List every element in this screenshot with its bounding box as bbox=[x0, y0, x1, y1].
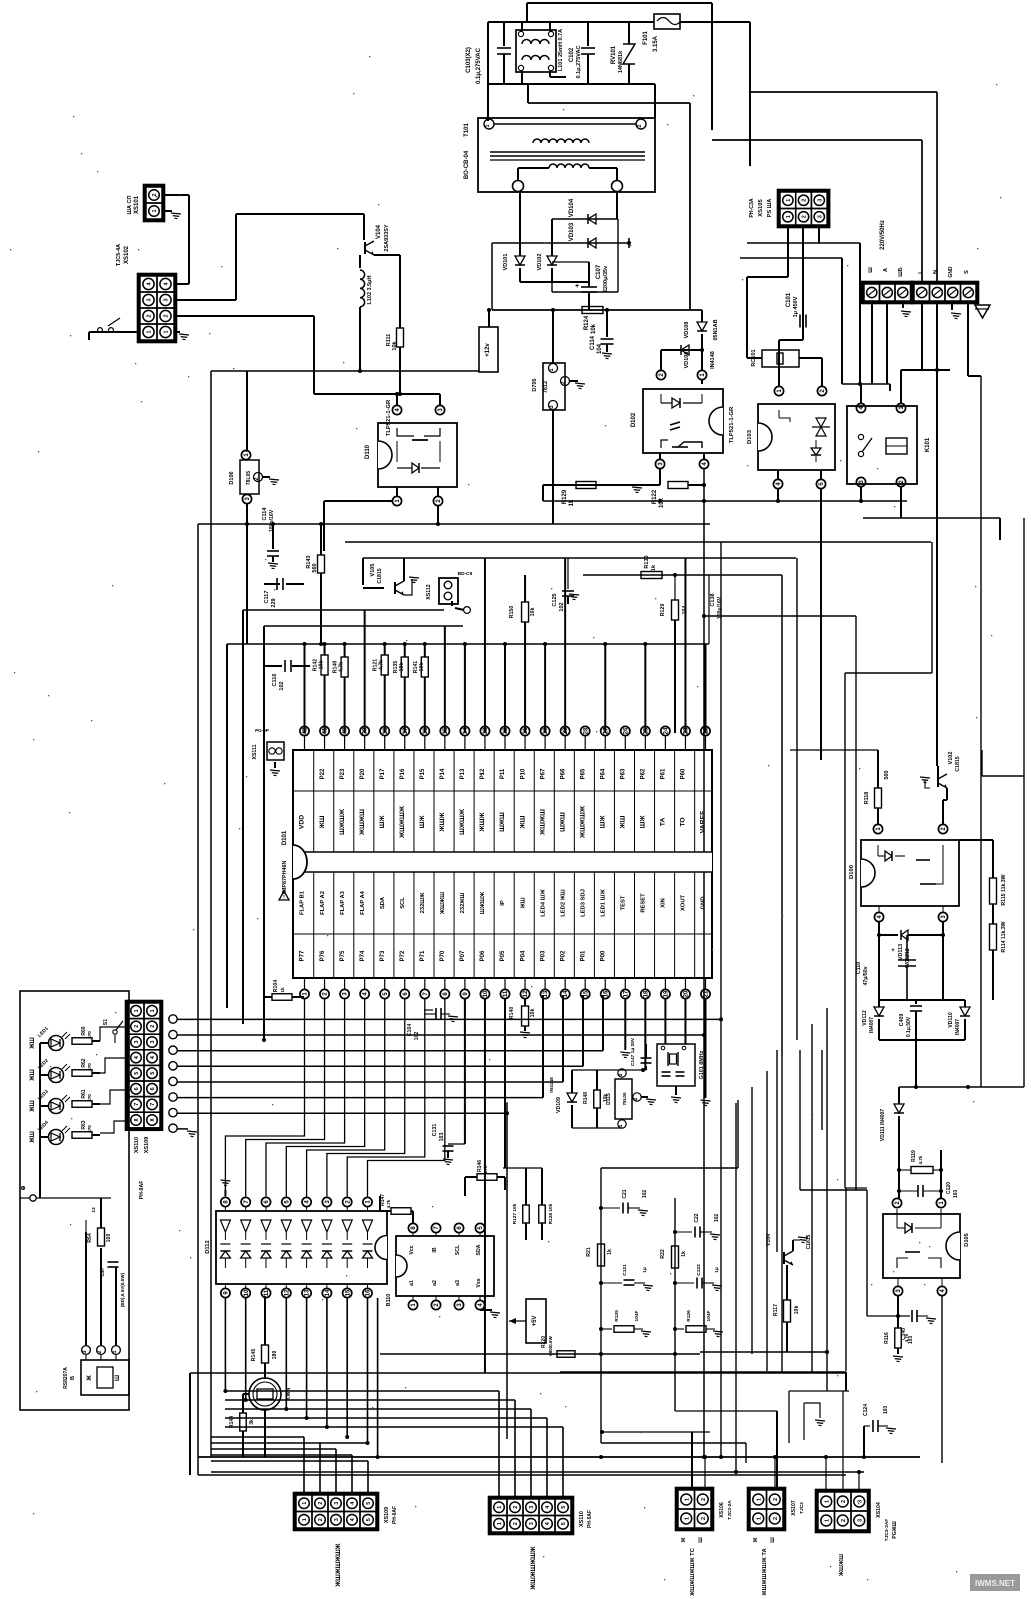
svg-text:13: 13 bbox=[91, 1207, 97, 1213]
svg-text:ШЖШЖ: ШЖШЖ bbox=[480, 891, 486, 914]
svg-text:R145: R145 bbox=[251, 1349, 257, 1362]
svg-text:ЖШЖШЖШЖ: ЖШЖШЖШЖ bbox=[335, 1543, 342, 1587]
svg-text:36: 36 bbox=[423, 727, 429, 734]
svg-text:R125: R125 bbox=[614, 1310, 620, 1322]
svg-text:C1815: C1815 bbox=[377, 568, 383, 583]
svg-text:P07: P07 bbox=[460, 950, 466, 961]
svg-text:2: 2 bbox=[633, 1097, 639, 1100]
svg-text:ШЖ: ШЖ bbox=[640, 815, 647, 829]
svg-text:13: 13 bbox=[305, 1289, 311, 1296]
svg-text:2: 2 bbox=[318, 1518, 324, 1521]
svg-text:VAREF: VAREF bbox=[700, 811, 707, 834]
svg-text:1: 1 bbox=[756, 1498, 762, 1501]
svg-text:2: 2 bbox=[701, 1517, 707, 1520]
svg-text:D115: D115 bbox=[606, 1093, 612, 1105]
svg-text:3: 3 bbox=[857, 1519, 863, 1522]
svg-text:1: 1 bbox=[497, 1522, 503, 1525]
svg-text:LED4 ШЖ: LED4 ШЖ bbox=[540, 888, 546, 916]
svg-text:P03: P03 bbox=[540, 950, 546, 961]
svg-text:+12v: +12v bbox=[485, 343, 491, 357]
svg-text:28: 28 bbox=[583, 727, 589, 734]
svg-text:2: 2 bbox=[701, 1498, 707, 1501]
svg-text:XS112: XS112 bbox=[426, 584, 432, 599]
svg-text:13: 13 bbox=[543, 990, 549, 997]
svg-text:1: 1 bbox=[302, 1518, 308, 1521]
svg-text:PH-C3A: PH-C3A bbox=[749, 198, 755, 218]
svg-text:2: 2 bbox=[318, 1502, 324, 1505]
svg-text:ЖШ: ЖШ bbox=[30, 1100, 36, 1112]
svg-text:1k: 1k bbox=[280, 987, 286, 993]
svg-text:P23: P23 bbox=[340, 768, 346, 779]
svg-text:P11: P11 bbox=[500, 768, 506, 779]
svg-text:P14: P14 bbox=[440, 768, 446, 779]
svg-text:C104: C104 bbox=[407, 1024, 413, 1037]
svg-text:FLAP A3: FLAP A3 bbox=[340, 890, 346, 915]
svg-text:ЖШЖШ: ЖШЖШ bbox=[440, 892, 446, 915]
svg-text:560: 560 bbox=[312, 563, 318, 572]
svg-text:D106: D106 bbox=[229, 471, 235, 484]
svg-text:SDA: SDA bbox=[476, 1244, 482, 1255]
svg-text:1: 1 bbox=[485, 124, 491, 127]
svg-text:3: 3 bbox=[147, 298, 153, 301]
svg-text:XS109: XS109 bbox=[384, 1507, 390, 1523]
svg-text:5: 5 bbox=[366, 1518, 372, 1521]
svg-text:XS106: XS106 bbox=[719, 1502, 725, 1518]
svg-text:0.1μ,275VAC: 0.1μ,275VAC bbox=[476, 47, 482, 84]
svg-text:Ж: Ж bbox=[753, 1537, 759, 1543]
svg-text:470: 470 bbox=[87, 1094, 92, 1102]
svg-text:P10: P10 bbox=[520, 768, 526, 779]
svg-text:XS110: XS110 bbox=[579, 1511, 585, 1527]
svg-text:XS111: XS111 bbox=[252, 744, 258, 759]
svg-text:P66: P66 bbox=[560, 768, 566, 779]
svg-text:2: 2 bbox=[841, 1519, 847, 1522]
svg-text:S: S bbox=[964, 270, 970, 274]
svg-text:1: 1 bbox=[164, 330, 170, 333]
svg-text:Vcc: Vcc bbox=[409, 1245, 415, 1254]
svg-text:+5V: +5V bbox=[532, 1316, 538, 1327]
svg-text:XS110: XS110 bbox=[134, 1137, 140, 1153]
svg-text:ШЖШЖ: ШЖШЖ bbox=[459, 808, 466, 835]
svg-text:P67: P67 bbox=[540, 768, 546, 779]
svg-text:2: 2 bbox=[802, 199, 808, 202]
svg-text:23: 23 bbox=[684, 727, 690, 734]
svg-text:BD-C9: BD-C9 bbox=[458, 571, 473, 577]
svg-text:IB: IB bbox=[432, 1247, 438, 1252]
svg-text:47μ/50v: 47μ/50v bbox=[863, 966, 869, 985]
svg-text:24: 24 bbox=[664, 727, 670, 734]
svg-text:P13: P13 bbox=[460, 768, 466, 779]
svg-text:P72: P72 bbox=[400, 950, 406, 961]
svg-text:104: 104 bbox=[597, 343, 603, 354]
svg-text:34: 34 bbox=[463, 727, 469, 734]
svg-text:3: 3 bbox=[529, 1506, 535, 1509]
svg-text:PGЖШ: PGЖШ bbox=[892, 1521, 898, 1538]
svg-text:a1: a1 bbox=[409, 1280, 415, 1286]
svg-text:P12: P12 bbox=[480, 768, 486, 779]
svg-text:P15: P15 bbox=[420, 768, 426, 779]
svg-text:PS ША: PS ША bbox=[767, 199, 773, 217]
svg-text:2: 2 bbox=[513, 1506, 519, 1509]
svg-text:ЖШЖШЖШЖ: ЖШЖШЖШЖ bbox=[530, 1546, 537, 1590]
svg-text:Ш: Ш bbox=[698, 1537, 704, 1543]
svg-text:31: 31 bbox=[523, 727, 529, 734]
svg-text:2: 2 bbox=[254, 477, 260, 480]
svg-text:VD111 IN4007: VD111 IN4007 bbox=[880, 1109, 886, 1141]
svg-text:2: 2 bbox=[773, 1517, 779, 1520]
svg-text:1μ 450V: 1μ 450V bbox=[793, 296, 799, 317]
svg-text:3: 3 bbox=[549, 405, 555, 408]
svg-text:102: 102 bbox=[414, 1032, 420, 1041]
svg-text:470: 470 bbox=[87, 1063, 92, 1071]
svg-text:Ш: Ш bbox=[770, 1537, 776, 1543]
svg-text:VD113: VD113 bbox=[898, 944, 904, 960]
svg-text:1: 1 bbox=[786, 215, 792, 218]
svg-text:R116: R116 bbox=[884, 1332, 890, 1344]
svg-text:6: 6 bbox=[150, 1087, 156, 1090]
svg-text:D110: D110 bbox=[365, 444, 371, 459]
svg-text:103: 103 bbox=[953, 1190, 959, 1199]
svg-text:C409: C409 bbox=[899, 1014, 905, 1027]
svg-text:R148: R148 bbox=[583, 1092, 589, 1104]
svg-text:ЖШ: ЖШ bbox=[30, 1069, 36, 1081]
svg-text:P64: P64 bbox=[600, 768, 606, 779]
svg-text:C138: C138 bbox=[710, 593, 716, 606]
svg-text:C122: C122 bbox=[696, 1264, 702, 1276]
svg-text:ЖШЖШЖ: ЖШЖШЖ bbox=[579, 805, 586, 839]
svg-text:R21: R21 bbox=[586, 1247, 592, 1257]
svg-text:C97: C97 bbox=[100, 1267, 106, 1276]
svg-text:2: 2 bbox=[841, 1500, 847, 1503]
svg-text:P75: P75 bbox=[340, 950, 346, 961]
svg-text:33: 33 bbox=[483, 727, 489, 734]
svg-text:P77: P77 bbox=[300, 950, 306, 961]
svg-text:IN4007: IN4007 bbox=[869, 1017, 875, 1033]
svg-text:VD100: VD100 bbox=[684, 352, 690, 369]
svg-text:ША СП: ША СП bbox=[127, 195, 133, 214]
svg-text:V104: V104 bbox=[766, 1234, 772, 1246]
svg-text:K101: K101 bbox=[925, 437, 931, 452]
svg-text:ЖШЖШЖ: ЖШЖШЖ bbox=[399, 805, 406, 839]
svg-text:ЖШ: ЖШ bbox=[30, 1037, 36, 1049]
svg-text:B110: B110 bbox=[386, 1294, 392, 1307]
svg-text:SCL: SCL bbox=[455, 1244, 461, 1255]
svg-text:V102: V102 bbox=[948, 752, 954, 765]
svg-text:VD104: VD104 bbox=[569, 198, 575, 217]
svg-text:15: 15 bbox=[345, 1289, 351, 1296]
svg-text:5: 5 bbox=[366, 1502, 372, 1505]
svg-text:25: 25 bbox=[643, 727, 649, 734]
svg-text:ШЖ: ШЖ bbox=[599, 815, 606, 829]
svg-text:3: 3 bbox=[334, 1502, 340, 1505]
svg-text:4.7k: 4.7k bbox=[379, 660, 385, 670]
svg-text:2: 2 bbox=[97, 1350, 103, 1353]
svg-text:680/0.5W: 680/0.5W bbox=[548, 1336, 553, 1356]
svg-text:470: 470 bbox=[87, 1031, 92, 1039]
svg-text:W06Z12: W06Z12 bbox=[905, 948, 911, 968]
svg-text:R114 11k.3W: R114 11k.3W bbox=[1001, 921, 1007, 952]
svg-text:TLP521-1-GR: TLP521-1-GR bbox=[729, 406, 735, 443]
svg-text:3k: 3k bbox=[249, 1419, 255, 1425]
svg-text:16: 16 bbox=[603, 990, 609, 997]
svg-text:C101: C101 bbox=[786, 292, 792, 307]
svg-text:ЖШЖШЖШЖ TC: ЖШЖШЖШЖ TC bbox=[690, 1547, 696, 1597]
svg-text:2: 2 bbox=[150, 1025, 156, 1028]
svg-text:P63: P63 bbox=[621, 768, 627, 779]
svg-text:22: 22 bbox=[704, 727, 710, 734]
svg-text:R129: R129 bbox=[562, 489, 568, 504]
svg-text:P73: P73 bbox=[380, 950, 386, 961]
svg-text:TJC5-4A: TJC5-4A bbox=[116, 244, 122, 266]
svg-text:4.7k: 4.7k bbox=[386, 1199, 391, 1208]
svg-text:V104: V104 bbox=[376, 224, 382, 239]
svg-text:10k: 10k bbox=[591, 323, 597, 334]
svg-text:1: 1 bbox=[147, 330, 153, 333]
svg-text:2: 2 bbox=[164, 314, 170, 317]
svg-text:R104: R104 bbox=[273, 980, 279, 993]
svg-text:RS8207A: RS8207A bbox=[63, 1367, 69, 1389]
svg-text:C120: C120 bbox=[946, 1182, 952, 1194]
svg-text:LED1 ШЖ: LED1 ШЖ bbox=[600, 888, 606, 916]
svg-text:232ЖШ: 232ЖШ bbox=[460, 892, 466, 913]
svg-text:14: 14 bbox=[563, 990, 569, 997]
svg-text:C102: C102 bbox=[569, 47, 575, 62]
svg-text:2: 2 bbox=[802, 215, 808, 218]
svg-text:Ж: Ж bbox=[87, 1375, 93, 1382]
svg-text:XS102: XS102 bbox=[124, 245, 130, 264]
svg-text:⊕: ⊕ bbox=[21, 1185, 27, 1190]
svg-text:26: 26 bbox=[623, 727, 629, 734]
svg-text:VDD: VDD bbox=[299, 815, 306, 829]
svg-text:16: 16 bbox=[366, 1289, 372, 1296]
svg-text:1μ: 1μ bbox=[642, 1267, 648, 1273]
svg-text:R127 10k: R127 10k bbox=[512, 1203, 518, 1224]
svg-text:RESET: RESET bbox=[641, 893, 647, 913]
svg-text:C117: C117 bbox=[264, 591, 270, 604]
svg-text:P61: P61 bbox=[661, 768, 667, 779]
svg-text:R64: R64 bbox=[87, 1233, 93, 1243]
svg-text:2SA933SY: 2SA933SY bbox=[384, 224, 390, 252]
svg-text:38: 38 bbox=[383, 727, 389, 734]
svg-text:1k: 1k bbox=[569, 499, 575, 506]
svg-text:C125: C125 bbox=[552, 593, 558, 606]
svg-text:2200μ/35v: 2200μ/35v bbox=[603, 265, 609, 292]
svg-text:1: 1 bbox=[134, 1009, 140, 1012]
svg-text:3: 3 bbox=[817, 199, 823, 202]
svg-text:1: 1 bbox=[786, 199, 792, 202]
svg-text:102: 102 bbox=[559, 602, 565, 611]
svg-text:XS109: XS109 bbox=[144, 1137, 150, 1154]
svg-text:10k: 10k bbox=[319, 661, 325, 670]
svg-text:P71: P71 bbox=[420, 950, 426, 961]
svg-text:ШЖ: ШЖ bbox=[419, 815, 426, 829]
svg-text:5: 5 bbox=[561, 1522, 567, 1525]
svg-text:4.7k: 4.7k bbox=[483, 1165, 488, 1174]
svg-text:P74: P74 bbox=[360, 950, 366, 961]
svg-text:N: N bbox=[933, 270, 939, 274]
svg-text:1: 1 bbox=[549, 368, 555, 371]
svg-text:4.7k: 4.7k bbox=[904, 1333, 909, 1342]
svg-text:1k: 1k bbox=[607, 1249, 613, 1255]
svg-text:А: А bbox=[883, 268, 889, 272]
svg-text:37: 37 bbox=[403, 727, 409, 734]
svg-text:39: 39 bbox=[363, 727, 369, 734]
svg-text:V105: V105 bbox=[370, 564, 376, 577]
svg-text:C124: C124 bbox=[863, 1404, 869, 1416]
svg-text:C131: C131 bbox=[432, 1124, 438, 1137]
svg-text:XS101: XS101 bbox=[134, 195, 140, 214]
svg-text:S1: S1 bbox=[103, 1019, 109, 1025]
svg-text:R22: R22 bbox=[660, 1249, 666, 1259]
svg-text:ЖШ: ЖШ bbox=[319, 815, 326, 829]
svg-text:R129: R129 bbox=[660, 604, 666, 617]
svg-text:IN4007: IN4007 bbox=[955, 1019, 961, 1035]
svg-text:R140: R140 bbox=[509, 1007, 515, 1020]
svg-text:1k: 1k bbox=[681, 1251, 687, 1257]
svg-text:ЖШЖШ: ЖШЖШ bbox=[539, 809, 546, 836]
svg-text:42: 42 bbox=[303, 727, 309, 734]
svg-text:232ШЖ: 232ШЖ bbox=[420, 892, 426, 913]
svg-text:ЖШЖШЖШЖ TA: ЖШЖШЖШЖ TA bbox=[762, 1548, 768, 1597]
svg-text:35: 35 bbox=[443, 727, 449, 734]
svg-text:103: 103 bbox=[439, 1133, 445, 1142]
svg-text:PH-5AF: PH-5AF bbox=[587, 1510, 593, 1528]
svg-text:220V/50Hz: 220V/50Hz bbox=[880, 220, 886, 250]
svg-text:40: 40 bbox=[343, 727, 349, 734]
svg-text:L101 25mH 0.7A: L101 25mH 0.7A bbox=[558, 29, 564, 71]
svg-text:XOUT: XOUT bbox=[681, 894, 687, 911]
svg-text:FLAP B1: FLAP B1 bbox=[300, 890, 306, 915]
svg-text:D100: D100 bbox=[849, 865, 855, 879]
svg-text:P02: P02 bbox=[560, 950, 566, 961]
svg-text:1k: 1k bbox=[651, 564, 657, 571]
svg-text:P01: P01 bbox=[580, 950, 586, 961]
svg-text:1: 1 bbox=[152, 209, 158, 212]
svg-text:104F: 104F bbox=[634, 1310, 640, 1321]
svg-text:LED3 SDJ: LED3 SDJ bbox=[580, 889, 586, 917]
svg-text:VD108: VD108 bbox=[684, 322, 690, 339]
svg-text:1: 1 bbox=[824, 1519, 830, 1522]
svg-text:VD112: VD112 bbox=[862, 1010, 868, 1026]
svg-text:D102: D102 bbox=[631, 412, 637, 427]
svg-text:10k: 10k bbox=[392, 340, 398, 350]
svg-text:20: 20 bbox=[684, 990, 690, 997]
svg-text:10k: 10k bbox=[530, 608, 536, 617]
svg-text:R128 10k: R128 10k bbox=[548, 1203, 554, 1224]
svg-text:TJC3: TJC3 bbox=[799, 1502, 805, 1514]
svg-text:19: 19 bbox=[664, 990, 670, 997]
svg-text:TLP521-1-GR: TLP521-1-GR bbox=[386, 399, 392, 436]
svg-text:VD102: VD102 bbox=[537, 254, 543, 271]
svg-text:7812: 7812 bbox=[543, 381, 549, 393]
svg-text:PG-9P: PG-9P bbox=[255, 728, 269, 733]
svg-text:27: 27 bbox=[603, 727, 609, 734]
svg-text:IN4148: IN4148 bbox=[549, 1077, 555, 1093]
svg-text:P04: P04 bbox=[520, 950, 526, 961]
svg-text:4.7k: 4.7k bbox=[339, 662, 345, 672]
svg-text:10k: 10k bbox=[794, 1306, 800, 1315]
svg-text:C114: C114 bbox=[590, 335, 596, 350]
svg-text:ШЖШ: ШЖШ bbox=[559, 812, 566, 832]
svg-text:10k: 10k bbox=[419, 663, 425, 672]
svg-text:L102 3.5μH: L102 3.5μH bbox=[367, 275, 373, 304]
svg-text:TA: TA bbox=[660, 818, 667, 827]
svg-text:78L05: 78L05 bbox=[622, 1092, 627, 1105]
svg-text:8: 8 bbox=[150, 1118, 156, 1121]
svg-text:2: 2 bbox=[637, 124, 643, 127]
svg-text:ЖШЖШ: ЖШЖШ bbox=[359, 809, 366, 836]
svg-text:C121: C121 bbox=[622, 1264, 628, 1276]
svg-text:SDA: SDA bbox=[380, 896, 386, 909]
svg-text:VD109: VD109 bbox=[556, 1097, 562, 1113]
svg-text:10: 10 bbox=[244, 1289, 250, 1296]
svg-text:7: 7 bbox=[150, 1103, 156, 1106]
svg-text:ШБ: ШБ bbox=[898, 267, 904, 277]
svg-text:D103: D103 bbox=[747, 429, 753, 444]
svg-text:78L05: 78L05 bbox=[246, 471, 252, 485]
svg-text:R119: R119 bbox=[911, 1150, 917, 1162]
svg-text:ЖШ: ЖШ bbox=[30, 1131, 36, 1143]
svg-text:GND: GND bbox=[948, 266, 954, 278]
svg-text:C1815: C1815 bbox=[955, 756, 961, 771]
svg-text:P05: P05 bbox=[500, 950, 506, 961]
svg-text:ЖШ: ЖШ bbox=[520, 897, 526, 909]
svg-text:XS104: XS104 bbox=[876, 1502, 882, 1518]
svg-text:LED2 ЖШ: LED2 ЖШ bbox=[560, 889, 566, 917]
svg-text:1: 1 bbox=[150, 1009, 156, 1012]
svg-text:Ж: Ж bbox=[681, 1537, 687, 1543]
svg-text:500: 500 bbox=[884, 771, 890, 780]
svg-text:1: 1 bbox=[824, 1500, 830, 1503]
svg-text:C22: C22 bbox=[694, 1213, 700, 1222]
svg-text:18: 18 bbox=[643, 990, 649, 997]
svg-text:ЖШ: ЖШ bbox=[519, 815, 526, 829]
svg-text:104: 104 bbox=[682, 606, 688, 615]
svg-text:TMP87PH46N: TMP87PH46N bbox=[282, 861, 288, 896]
svg-text:P06: P06 bbox=[480, 950, 486, 961]
svg-text:470: 470 bbox=[87, 1125, 92, 1133]
svg-text:3: 3 bbox=[857, 1500, 863, 1503]
svg-text:(BD),6.5V(0.5W): (BD),6.5V(0.5W) bbox=[120, 1272, 125, 1307]
svg-text:1: 1 bbox=[684, 1498, 690, 1501]
svg-text:6: 6 bbox=[134, 1087, 140, 1090]
svg-text:P20: P20 bbox=[360, 768, 366, 779]
svg-text:C21: C21 bbox=[622, 1189, 628, 1198]
svg-text:VD103: VD103 bbox=[569, 222, 575, 241]
svg-text:R117: R117 bbox=[773, 1304, 779, 1316]
svg-text:3: 3 bbox=[618, 1073, 624, 1076]
svg-text:2: 2 bbox=[561, 381, 567, 384]
svg-text:12: 12 bbox=[284, 1289, 290, 1296]
svg-text:FLAP A4: FLAP A4 bbox=[360, 890, 366, 915]
svg-text:102: 102 bbox=[642, 1190, 648, 1199]
svg-text:IP: IP bbox=[500, 900, 506, 906]
svg-text:T101: T101 bbox=[464, 123, 470, 137]
svg-text:102: 102 bbox=[714, 1214, 720, 1223]
svg-text:3: 3 bbox=[134, 1040, 140, 1043]
svg-text:VD101: VD101 bbox=[503, 254, 509, 271]
svg-text:D705: D705 bbox=[532, 378, 538, 391]
svg-text:FLAP A2: FLAP A2 bbox=[320, 891, 326, 915]
svg-text:11: 11 bbox=[264, 1289, 270, 1296]
svg-text:103: 103 bbox=[883, 1406, 889, 1415]
svg-text:IWMS.NET: IWMS.NET bbox=[975, 1579, 1015, 1588]
svg-text:SCL: SCL bbox=[400, 897, 406, 909]
svg-text:10: 10 bbox=[483, 990, 489, 997]
svg-text:ШЖШЖ: ШЖШЖ bbox=[339, 808, 346, 835]
svg-text:F101: F101 bbox=[643, 31, 649, 45]
svg-text:3.15A: 3.15A bbox=[653, 35, 659, 52]
